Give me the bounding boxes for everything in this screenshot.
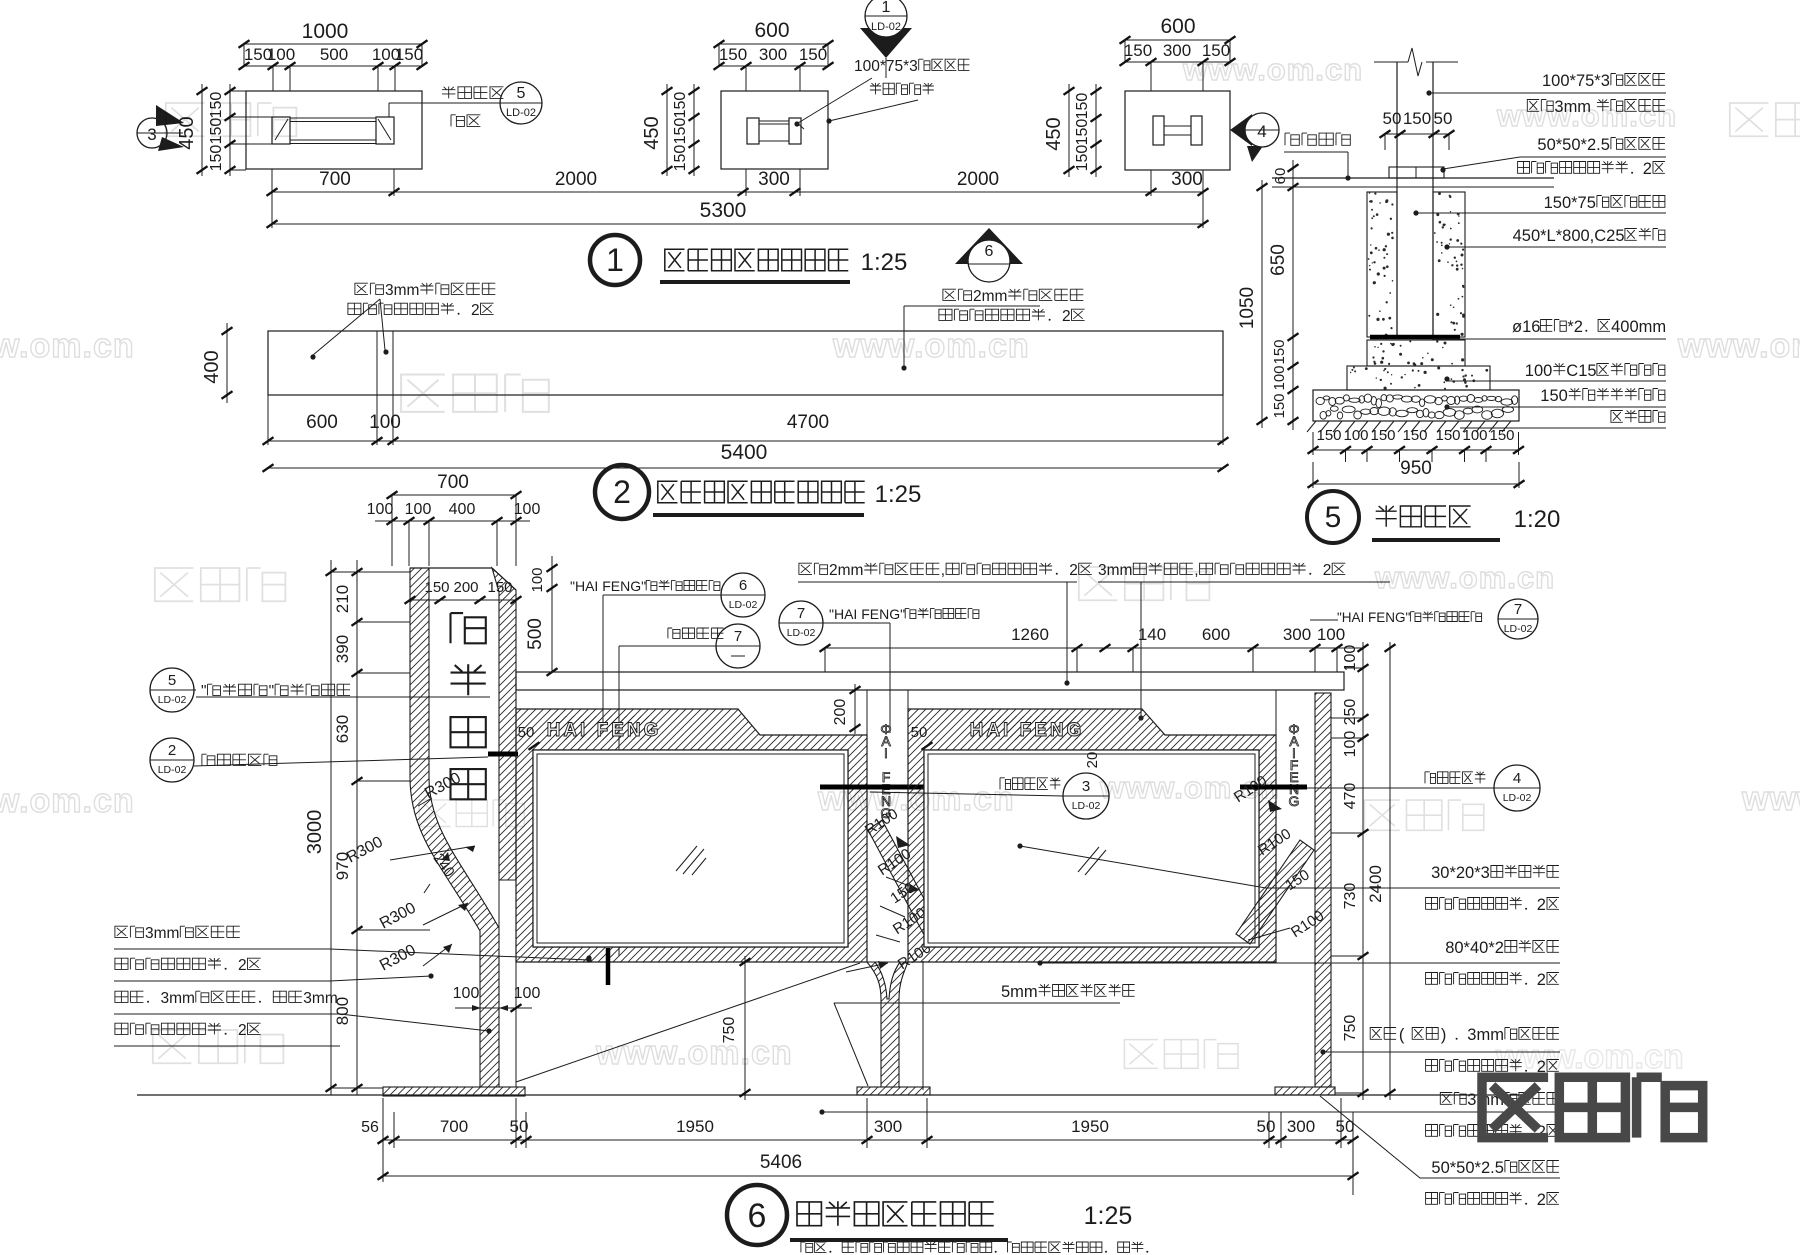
callout blue paint 1 bbox=[1518, 162, 1530, 174]
svg-text:1950: 1950 bbox=[1071, 1117, 1109, 1136]
title 5 foundation detail bbox=[1307, 491, 1359, 543]
svg-text:2: 2 bbox=[1062, 308, 1071, 325]
svg-text:LD-02: LD-02 bbox=[1072, 800, 1101, 812]
svg-text:200: 200 bbox=[832, 699, 849, 726]
svg-text:6: 6 bbox=[985, 243, 994, 260]
svg-text:3mm: 3mm bbox=[303, 990, 337, 1007]
view 2 roof plan bar bbox=[268, 331, 1223, 395]
svg-text:I: I bbox=[884, 745, 888, 761]
pylon top cap bbox=[410, 568, 516, 590]
svg-text:400: 400 bbox=[449, 501, 476, 518]
svg-text:G: G bbox=[1289, 793, 1300, 809]
svg-text:150: 150 bbox=[719, 45, 747, 64]
svg-text:3000: 3000 bbox=[304, 810, 326, 855]
pylon right wall lower lines bbox=[498, 880, 500, 1087]
svg-text:LD-02: LD-02 bbox=[787, 627, 816, 639]
svg-text:3mm: 3mm bbox=[385, 282, 419, 299]
section cut dash pylon bbox=[488, 752, 518, 757]
svg-text:2mm: 2mm bbox=[829, 562, 863, 579]
foundation total dim 1050 bbox=[1261, 180, 1263, 428]
svg-text:www.om.cn: www.om.cn bbox=[0, 327, 135, 365]
svg-text:LD-02: LD-02 bbox=[729, 599, 758, 611]
callout ref circle 5 font layout bbox=[150, 668, 194, 712]
svg-text:150: 150 bbox=[1074, 119, 1091, 146]
svg-text:1: 1 bbox=[882, 0, 891, 16]
svg-text:500: 500 bbox=[525, 618, 546, 650]
marker circle 7 section fig 4 bbox=[668, 628, 680, 638]
svg-text:150: 150 bbox=[1435, 427, 1460, 444]
view mid bench plan bbox=[747, 118, 759, 144]
svg-text:150: 150 bbox=[1403, 109, 1431, 128]
svg-text:,: , bbox=[941, 562, 945, 579]
box 2 outer frame hatched bbox=[908, 709, 1276, 962]
watermark text om.cn tiles bbox=[166, 103, 205, 136]
svg-text:200: 200 bbox=[453, 579, 478, 596]
pylon left S-wall hatched bbox=[410, 568, 499, 1087]
svg-text:3mm: 3mm bbox=[145, 925, 179, 942]
svg-text:150: 150 bbox=[672, 92, 689, 119]
svg-text:50*50*2.5: 50*50*2.5 bbox=[1431, 1159, 1504, 1177]
view mid dim 600 bbox=[719, 43, 828, 45]
view right bottom dim 300 bbox=[1150, 170, 1152, 196]
elevation left total dim 3000 bbox=[330, 560, 332, 1095]
svg-text:www.om.cn: www.om.cn bbox=[1182, 52, 1363, 87]
svg-text:3mm: 3mm bbox=[161, 990, 195, 1007]
leader dot box1 inner bbox=[586, 955, 591, 960]
svg-text:2: 2 bbox=[1643, 160, 1652, 178]
view right left dims bbox=[1068, 84, 1070, 177]
callout section method 3 right circle 4 bbox=[1425, 772, 1436, 784]
callout wrap 3mm plate bbox=[1527, 100, 1539, 112]
svg-text:150*75: 150*75 bbox=[1544, 194, 1596, 212]
svg-text:5: 5 bbox=[168, 672, 176, 689]
svg-text:2400: 2400 bbox=[1366, 865, 1385, 903]
svg-text:450: 450 bbox=[641, 116, 663, 149]
right diagonal brace bbox=[1236, 840, 1314, 944]
svg-text:): ) bbox=[1441, 1026, 1447, 1044]
svg-text:630: 630 bbox=[333, 715, 352, 743]
pylon cap dims 100/100/400/100 bbox=[375, 520, 530, 522]
svg-text:www.om.cn: www.om.cn bbox=[595, 1034, 793, 1072]
callout 2mm plate right bbox=[943, 289, 956, 300]
svg-text:3: 3 bbox=[1082, 778, 1090, 795]
svg-text:5: 5 bbox=[517, 85, 526, 102]
svg-text:www.om.cn: www.om.cn bbox=[1741, 780, 1800, 818]
svg-text:2000: 2000 bbox=[957, 169, 999, 190]
soil hatch excavation line bbox=[1307, 421, 1316, 432]
svg-text:HAI FENG: HAI FENG bbox=[547, 720, 662, 741]
om.cn big gray logo bbox=[1482, 1077, 1548, 1137]
plans dim row 5300 bbox=[272, 223, 1203, 225]
svg-text:50*50*2.5: 50*50*2.5 bbox=[1537, 136, 1610, 154]
svg-text:150: 150 bbox=[672, 118, 689, 145]
svg-text:210: 210 bbox=[333, 585, 352, 613]
view right dumbbell posts bbox=[1153, 116, 1164, 145]
svg-text:100: 100 bbox=[529, 567, 546, 592]
foundation C15 cushion bbox=[1347, 366, 1490, 390]
svg-text:600: 600 bbox=[754, 19, 789, 42]
svg-text:600: 600 bbox=[1202, 625, 1230, 644]
svg-text:100: 100 bbox=[1462, 427, 1487, 444]
callout 2mm plate white paint top bbox=[799, 563, 812, 574]
svg-text:150: 150 bbox=[487, 579, 512, 596]
svg-text:4: 4 bbox=[1513, 770, 1521, 787]
svg-text:www.om.cn: www.om.cn bbox=[1496, 98, 1677, 133]
svg-text:1:25: 1:25 bbox=[1084, 1202, 1133, 1230]
view 1 bench seat bar bbox=[290, 117, 376, 119]
section cut dash box1 left bbox=[606, 948, 611, 985]
svg-text:100: 100 bbox=[369, 412, 401, 433]
elevation dim 5406 bbox=[383, 1175, 1353, 1177]
svg-text:LD-02: LD-02 bbox=[1503, 792, 1532, 804]
svg-text:1:25: 1:25 bbox=[861, 249, 908, 276]
title 6 info board elevation bbox=[727, 1185, 787, 1245]
svg-text:100: 100 bbox=[1343, 427, 1368, 444]
svg-text:20: 20 bbox=[1084, 752, 1101, 769]
right dim chain outer 2400 bbox=[1389, 642, 1391, 1100]
svg-text:100: 100 bbox=[453, 985, 480, 1002]
svg-text:LD-02: LD-02 bbox=[1504, 623, 1533, 635]
foundation rubble layer bbox=[1313, 390, 1519, 421]
svg-text:5mm: 5mm bbox=[1001, 983, 1038, 1001]
elevation ground line bbox=[137, 1094, 1521, 1096]
view right dim 150/300/150 bbox=[1125, 61, 1230, 63]
svg-text:150: 150 bbox=[1402, 427, 1427, 444]
pylon name sign text 海峰佳苑 bbox=[451, 613, 486, 643]
pylon cap dim 700 bbox=[392, 494, 516, 496]
callout ref circle 2 section method 1 bbox=[150, 738, 194, 782]
view 1 left dims 150x3 bbox=[229, 84, 231, 176]
right post base plate bbox=[1275, 1087, 1335, 1095]
svg-text:2: 2 bbox=[1537, 971, 1546, 989]
svg-text:ø16: ø16 bbox=[1512, 318, 1540, 336]
view 1 left dim 450 bbox=[201, 84, 203, 176]
svg-text:www.om.cn: www.om.cn bbox=[1495, 1038, 1684, 1076]
pylon base plate bbox=[383, 1087, 525, 1096]
right gap edges bbox=[1275, 690, 1277, 735]
svg-text:2: 2 bbox=[1069, 562, 1078, 579]
svg-text:2: 2 bbox=[238, 957, 247, 974]
svg-text:470: 470 bbox=[1342, 783, 1359, 810]
svg-text:100*75*3: 100*75*3 bbox=[854, 58, 918, 75]
svg-text:C15: C15 bbox=[1566, 362, 1596, 380]
foundation steel bar phi16 bbox=[1370, 335, 1460, 340]
svg-text:50: 50 bbox=[1383, 109, 1402, 128]
svg-text:300: 300 bbox=[1287, 1117, 1315, 1136]
svg-text:50: 50 bbox=[911, 724, 928, 741]
foundation left dim chain 60/650/150/100/150 bbox=[1292, 160, 1294, 430]
roof bar top dim row 1260/140/600/300/100 bbox=[825, 647, 1337, 649]
svg-text:www.om.cn: www.om.cn bbox=[1374, 560, 1555, 595]
svg-text:2: 2 bbox=[1323, 562, 1332, 579]
foundation concrete below bar bbox=[1367, 340, 1465, 366]
mid gap edges bbox=[866, 690, 868, 735]
svg-text:(: ( bbox=[1399, 1026, 1405, 1044]
svg-text:2000: 2000 bbox=[555, 169, 597, 190]
box 2 HAI FENG knockout bbox=[976, 716, 1078, 740]
svg-text:150: 150 bbox=[1074, 93, 1091, 120]
svg-text:600: 600 bbox=[306, 412, 338, 433]
svg-text:100: 100 bbox=[1271, 365, 1288, 390]
svg-text:"HAI FENG": "HAI FENG" bbox=[829, 606, 905, 622]
svg-text:"HAI FENG": "HAI FENG" bbox=[570, 578, 646, 594]
view 2 left dim 400 bbox=[226, 323, 228, 403]
svg-text:7: 7 bbox=[797, 605, 805, 622]
foundation concrete right column bbox=[1433, 192, 1465, 337]
foundation concrete left column bbox=[1367, 192, 1397, 337]
svg-text:150: 150 bbox=[1124, 41, 1152, 60]
pylon cap top dims 150/200/150 bbox=[410, 599, 516, 601]
svg-text:LD-02: LD-02 bbox=[158, 764, 187, 776]
mid post hatched bbox=[867, 962, 908, 1087]
svg-text:100: 100 bbox=[514, 501, 541, 518]
svg-text:1050: 1050 bbox=[1237, 287, 1258, 329]
box 1 glass marks bbox=[676, 846, 697, 871]
svg-text:650: 650 bbox=[1268, 244, 1289, 276]
view 1 bottom dim 700 bbox=[271, 169, 273, 196]
view right plan slab rectangle bbox=[1125, 91, 1230, 170]
elevation bottom dim row bbox=[383, 1139, 1353, 1141]
box 2 window inner line bbox=[924, 750, 1259, 947]
svg-text:100: 100 bbox=[367, 501, 394, 518]
svg-text:600: 600 bbox=[1160, 15, 1195, 38]
svg-text:700: 700 bbox=[437, 472, 469, 493]
box 1 window inner line bbox=[533, 750, 848, 947]
section marker 3 bbox=[137, 118, 167, 148]
svg-text:150: 150 bbox=[208, 92, 225, 119]
svg-text:150: 150 bbox=[1370, 427, 1395, 444]
svg-text:60: 60 bbox=[1272, 168, 1289, 185]
svg-text:1950: 1950 bbox=[676, 1117, 714, 1136]
foundation bottom dims 150/100/150/150/150/100/150 bbox=[1313, 449, 1519, 451]
elevation left dims 210/390/630/970/800 bbox=[356, 560, 358, 1095]
svg-text:6: 6 bbox=[748, 1197, 767, 1235]
svg-text:100: 100 bbox=[514, 985, 541, 1002]
elevation roof bar bbox=[516, 672, 1344, 690]
svg-text:2mm: 2mm bbox=[973, 288, 1007, 305]
callout wrap 3mm galvanized left bbox=[115, 926, 128, 937]
svg-text:56: 56 bbox=[361, 1119, 379, 1136]
view 1 dim 150 100 500 100 150 bbox=[244, 65, 422, 67]
view mid dim 150/300/150 bbox=[719, 65, 828, 67]
svg-text:150: 150 bbox=[395, 45, 423, 64]
svg-text:150: 150 bbox=[208, 118, 225, 145]
svg-text:www.om.cn: www.om.cn bbox=[817, 780, 1015, 818]
svg-text:700: 700 bbox=[319, 169, 351, 190]
plans dim row 700/2000/300/2000/300 bbox=[272, 191, 1203, 193]
svg-text:www.om.cn: www.om.cn bbox=[0, 782, 135, 820]
svg-text:5300: 5300 bbox=[700, 199, 747, 222]
svg-text:150: 150 bbox=[1316, 427, 1341, 444]
foundation dim 50/150/50 bbox=[1385, 133, 1449, 135]
svg-text:LD-02: LD-02 bbox=[871, 21, 901, 33]
svg-text:3: 3 bbox=[147, 125, 156, 144]
svg-text:100*75*3: 100*75*3 bbox=[1542, 72, 1610, 90]
svg-text:5406: 5406 bbox=[760, 1152, 802, 1173]
svg-text:1:25: 1:25 bbox=[875, 481, 922, 508]
foundation post 150x75 tube bbox=[1396, 62, 1398, 337]
callout wrap 3mm white paint bbox=[1440, 1093, 1452, 1105]
view 2 bottom dims 600/100/4700 bbox=[268, 440, 1223, 442]
callout outer decor 3mm plate bbox=[1370, 1028, 1382, 1040]
svg-text:750: 750 bbox=[1342, 1015, 1359, 1042]
svg-text:5: 5 bbox=[1325, 501, 1342, 534]
svg-text:450*L*800,C25: 450*L*800,C25 bbox=[1513, 227, 1625, 245]
svg-text:*2: *2 bbox=[1567, 318, 1583, 336]
callout inner 3mm plate left bbox=[115, 991, 128, 1002]
callout 3mm plate left bbox=[355, 283, 368, 294]
svg-text:50: 50 bbox=[1257, 1117, 1276, 1136]
svg-text:7: 7 bbox=[1514, 601, 1522, 618]
section marker 4 bbox=[1230, 114, 1252, 146]
svg-text:100: 100 bbox=[1317, 625, 1345, 644]
section cut dash mid bbox=[820, 785, 950, 790]
svg-text:730: 730 bbox=[1342, 883, 1359, 910]
left diagonal brace bbox=[868, 820, 944, 946]
svg-text:300: 300 bbox=[1283, 625, 1311, 644]
svg-text:150: 150 bbox=[672, 145, 689, 172]
view 2 dim 5400 bbox=[268, 467, 1223, 469]
svg-text:50: 50 bbox=[1434, 109, 1453, 128]
svg-text:7: 7 bbox=[734, 628, 742, 645]
svg-text:2: 2 bbox=[168, 742, 176, 759]
callout foundation detail ref circle 5 bbox=[442, 87, 455, 99]
view 1 foundation slab rectangle bbox=[246, 91, 422, 169]
svg-text:1: 1 bbox=[606, 242, 624, 278]
svg-text:300: 300 bbox=[874, 1117, 902, 1136]
dim 750 mid bbox=[744, 956, 746, 1100]
dim 200 right of box1 bbox=[854, 684, 856, 734]
svg-text:390: 390 bbox=[333, 635, 352, 663]
svg-text:700: 700 bbox=[440, 1117, 468, 1136]
marker 6 triangle circle bbox=[955, 228, 1023, 264]
svg-text:2: 2 bbox=[1537, 896, 1546, 914]
mid post base plate bbox=[857, 1087, 930, 1095]
svg-text:5400: 5400 bbox=[721, 441, 768, 464]
marker circle 7 LD-02 font layout 2 bbox=[779, 601, 823, 645]
svg-text:300: 300 bbox=[758, 169, 790, 190]
svg-text:150: 150 bbox=[1540, 387, 1568, 405]
title 1 culture board plan bbox=[590, 235, 640, 285]
view mid plan slab rectangle bbox=[721, 91, 828, 169]
svg-text:4: 4 bbox=[1257, 122, 1266, 141]
svg-text:2: 2 bbox=[613, 474, 631, 510]
foundation dim 950 bbox=[1313, 483, 1519, 485]
svg-text:100: 100 bbox=[405, 501, 432, 518]
svg-text:400: 400 bbox=[201, 350, 223, 383]
svg-text:50: 50 bbox=[1336, 1117, 1355, 1136]
svg-text:500: 500 bbox=[320, 45, 348, 64]
svg-text:50: 50 bbox=[518, 724, 535, 741]
right dim chain inner bbox=[1362, 642, 1364, 1100]
svg-text:1:20: 1:20 bbox=[1514, 506, 1561, 533]
svg-text:100: 100 bbox=[1525, 362, 1553, 380]
right post hatched bbox=[1315, 693, 1331, 1087]
svg-text:LD-02: LD-02 bbox=[158, 694, 187, 706]
callout dig to firm soil bbox=[1611, 411, 1623, 423]
view 1 dim 1000 bbox=[244, 43, 422, 45]
svg-text:100: 100 bbox=[1342, 731, 1359, 758]
svg-text:4700: 4700 bbox=[787, 412, 829, 433]
svg-text:80*40*2: 80*40*2 bbox=[1445, 939, 1504, 957]
svg-text:300: 300 bbox=[1171, 169, 1203, 190]
svg-text:"HAI FENG": "HAI FENG" bbox=[1337, 610, 1411, 625]
svg-text:140: 140 bbox=[1138, 625, 1166, 644]
svg-text:150: 150 bbox=[424, 579, 449, 596]
marker 1 circle LD-02 with triangle bbox=[860, 28, 912, 58]
svg-text:300: 300 bbox=[759, 45, 787, 64]
svg-text:150: 150 bbox=[799, 45, 827, 64]
pavement surface lines bbox=[1272, 177, 1554, 179]
svg-text:6: 6 bbox=[739, 577, 747, 594]
svg-text:2: 2 bbox=[1537, 1191, 1546, 1209]
svg-text:www.om.cn: www.om.cn bbox=[1677, 327, 1800, 365]
box 2 glass marks bbox=[1078, 847, 1099, 872]
box 1 HAI FENG knockout bbox=[553, 716, 655, 740]
sign dim 500/100 vertical bbox=[551, 556, 553, 672]
svg-text:,: , bbox=[1194, 562, 1198, 579]
callout section method 3 circle 3 bbox=[1000, 778, 1011, 790]
svg-text:HAI FENG: HAI FENG bbox=[970, 720, 1085, 741]
svg-text:1000: 1000 bbox=[302, 20, 349, 43]
callout pavement layer bbox=[1285, 133, 1299, 145]
svg-text:100: 100 bbox=[1342, 645, 1359, 672]
svg-text:400mm: 400mm bbox=[1611, 318, 1666, 336]
section cut dash right bbox=[1240, 785, 1307, 790]
svg-text:450: 450 bbox=[1043, 117, 1065, 150]
svg-text:150: 150 bbox=[1271, 339, 1288, 364]
svg-text:30*20*3: 30*20*3 bbox=[1431, 864, 1490, 882]
svg-text:www.om.cn: www.om.cn bbox=[1099, 770, 1280, 805]
svg-text:150: 150 bbox=[1489, 427, 1514, 444]
svg-text:LD-02: LD-02 bbox=[506, 107, 536, 119]
svg-text:150: 150 bbox=[208, 145, 225, 172]
svg-text:2: 2 bbox=[471, 302, 480, 319]
svg-text:150: 150 bbox=[1074, 145, 1091, 172]
svg-text:950: 950 bbox=[1400, 458, 1432, 479]
view right dim 600 bbox=[1125, 39, 1230, 41]
box 1 outer frame hatched bbox=[516, 709, 867, 962]
pylon right wall hatched bbox=[492, 568, 516, 880]
svg-text:150: 150 bbox=[1271, 393, 1288, 418]
view mid bottom dim 300 stubs bbox=[745, 169, 747, 196]
view mid left dims 450/150x3 bbox=[666, 84, 668, 176]
svg-text:100: 100 bbox=[267, 45, 295, 64]
svg-text:250: 250 bbox=[1342, 699, 1359, 726]
svg-text:1260: 1260 bbox=[1011, 625, 1049, 644]
svg-text:www.om.cn: www.om.cn bbox=[832, 327, 1030, 365]
svg-text:3mm: 3mm bbox=[1098, 562, 1132, 579]
title 2 culture board roof plan bbox=[595, 465, 649, 519]
